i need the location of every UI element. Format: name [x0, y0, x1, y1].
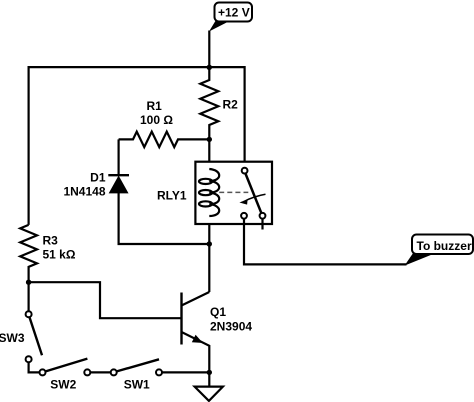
svg-text:R2: R2 — [223, 97, 239, 111]
svg-text:R1: R1 — [147, 99, 163, 113]
svg-text:SW1: SW1 — [124, 378, 150, 392]
svg-text:2N3904: 2N3904 — [210, 319, 252, 333]
svg-text:SW3: SW3 — [0, 331, 25, 345]
svg-text:R3: R3 — [43, 234, 59, 248]
svg-text:SW2: SW2 — [50, 378, 76, 392]
svg-text:51 kΩ: 51 kΩ — [43, 247, 76, 261]
svg-text:To buzzer: To buzzer — [417, 239, 472, 253]
svg-text:+12 V: +12 V — [218, 5, 250, 19]
svg-text:1N4148: 1N4148 — [63, 184, 105, 198]
svg-text:RLY1: RLY1 — [157, 188, 187, 202]
svg-text:Q1: Q1 — [210, 305, 226, 319]
svg-text:100 Ω: 100 Ω — [140, 113, 173, 127]
svg-text:D1: D1 — [90, 170, 106, 184]
